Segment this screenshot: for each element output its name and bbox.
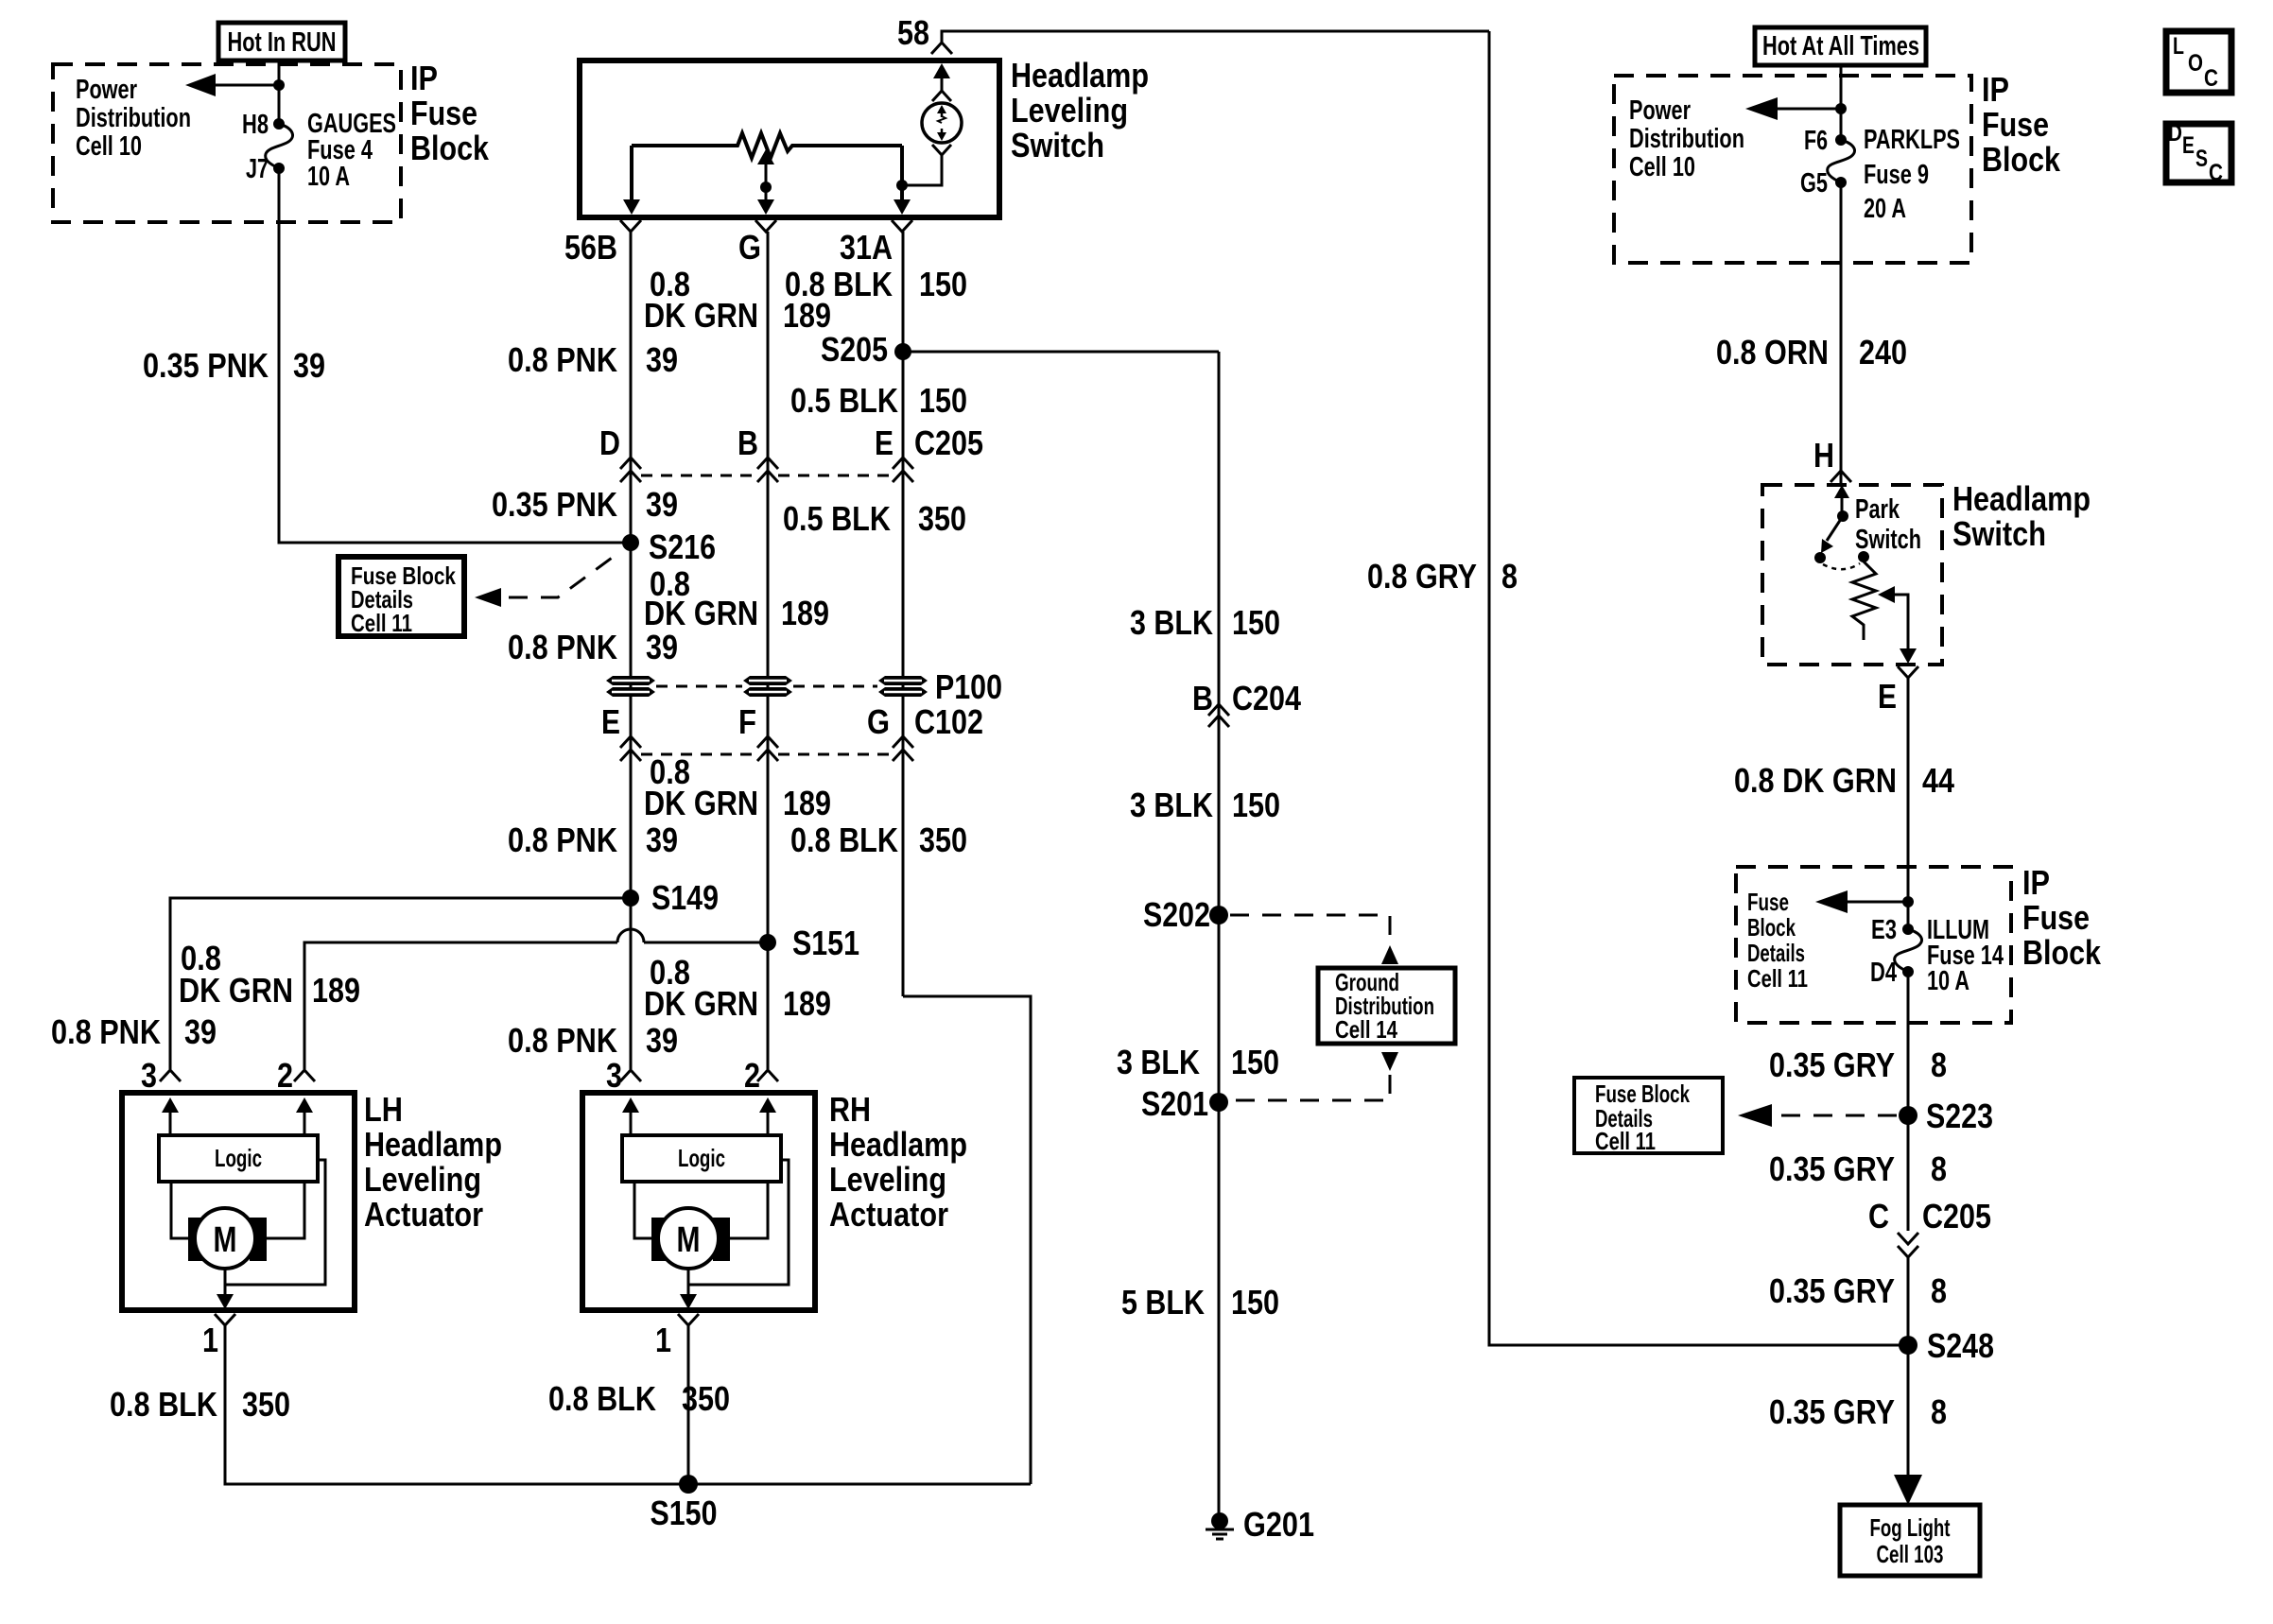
svg-text:8: 8 xyxy=(1501,557,1518,596)
svg-text:Headlamp: Headlamp xyxy=(1952,479,2091,518)
logic box RH xyxy=(622,1135,781,1182)
svg-text:Distribution: Distribution xyxy=(1629,124,1744,154)
wire label 0.5 BLK 150 xyxy=(790,381,967,420)
label ILLUM Fuse 14 10 A xyxy=(1927,915,2004,996)
connector C102 chevrons and dashed line xyxy=(620,736,913,761)
pot left lead arrow to 56B xyxy=(623,146,640,215)
svg-text:20 A: 20 A xyxy=(1864,194,1906,224)
svg-text:150: 150 xyxy=(919,265,967,303)
wire column G/B/F DK GRN xyxy=(767,232,770,1069)
svg-text:S149: S149 xyxy=(651,878,719,917)
svg-text:Cell 11: Cell 11 xyxy=(1747,964,1808,993)
svg-text:3 BLK: 3 BLK xyxy=(1130,786,1213,824)
LH pin2 arrow inside xyxy=(296,1097,313,1135)
svg-text:B: B xyxy=(1192,679,1213,717)
connector C204 chevrons xyxy=(1208,704,1229,727)
svg-text:Headlamp: Headlamp xyxy=(1011,56,1149,95)
svg-text:Block: Block xyxy=(1747,913,1796,942)
svg-text:240: 240 xyxy=(1859,333,1907,371)
svg-text:Leveling: Leveling xyxy=(829,1160,946,1199)
svg-text:S150: S150 xyxy=(651,1494,718,1532)
svg-text:F: F xyxy=(738,702,756,741)
svg-text:1: 1 xyxy=(655,1321,671,1359)
wire arrow to Power Distribution (right) xyxy=(1745,97,1841,120)
reference box Fuse Block Details Cell 11 (left) xyxy=(338,557,464,637)
node at pot right lead xyxy=(896,180,908,191)
svg-text:LH: LH xyxy=(364,1090,403,1129)
svg-text:2: 2 xyxy=(744,1056,760,1095)
arrow into fog light box xyxy=(1894,1475,1922,1505)
svg-text:DK GRN: DK GRN xyxy=(644,594,758,632)
svg-text:E: E xyxy=(2182,132,2195,159)
svg-text:Logic: Logic xyxy=(678,1144,725,1172)
wire label 3 BLK 150 (above C204) xyxy=(1130,603,1280,642)
label IP Fuse Block (right top) xyxy=(1982,70,2061,179)
svg-text:Fuse: Fuse xyxy=(2022,898,2090,937)
reference box Fuse Block Details Cell 11 (right) xyxy=(1574,1078,1723,1155)
svg-text:39: 39 xyxy=(646,1021,678,1060)
label Park Switch xyxy=(1855,494,1921,555)
component box RH Headlamp Leveling Actuator xyxy=(582,1093,815,1310)
connector C102 labels E F G xyxy=(601,702,983,741)
wire 0.8 GRY 8 from 58 down to S248 xyxy=(1489,31,1908,1345)
wire label 0.35 PNK 39 (left feed) xyxy=(143,346,325,385)
wire E down to ILLUM fuse xyxy=(1907,678,1910,929)
splice S216 xyxy=(622,527,716,566)
svg-text:0.5 BLK: 0.5 BLK xyxy=(783,499,891,538)
svg-text:Power: Power xyxy=(1629,95,1691,126)
svg-text:0.8 BLK: 0.8 BLK xyxy=(110,1385,217,1424)
wire label 0.8 PNK 39 (RH pin3) xyxy=(508,1021,678,1060)
connector chevron H xyxy=(1831,471,1851,482)
svg-text:E: E xyxy=(875,423,894,462)
tab box LOC xyxy=(2166,31,2231,93)
label IP Fuse Block (right lower) xyxy=(2022,863,2102,972)
wire label 0.5 BLK 350 xyxy=(783,499,966,538)
svg-text:E: E xyxy=(601,702,620,741)
RH logic tap to pin1 xyxy=(688,1160,789,1285)
svg-text:C: C xyxy=(2204,65,2218,92)
label box Hot At All Times xyxy=(1755,27,1926,65)
svg-text:0.5 BLK: 0.5 BLK xyxy=(790,381,898,420)
svg-text:0.8 PNK: 0.8 PNK xyxy=(508,1021,617,1060)
svg-text:8: 8 xyxy=(1931,1045,1947,1084)
svg-text:Cell 10: Cell 10 xyxy=(1629,152,1695,182)
svg-text:8: 8 xyxy=(1931,1392,1947,1431)
connector chevron LH pin 3 xyxy=(160,1070,181,1081)
dashed reference arrow S223 to fuse block details xyxy=(1738,1104,1897,1127)
svg-text:H8: H8 xyxy=(242,110,269,140)
svg-text:S201: S201 xyxy=(1141,1084,1208,1123)
svg-text:C205: C205 xyxy=(914,423,983,462)
wire label 0.35 PNK 39 (above S216) xyxy=(492,485,678,524)
label RH Headlamp Leveling Actuator xyxy=(829,1090,967,1234)
svg-text:C102: C102 xyxy=(914,702,983,741)
svg-text:0.8 BLK: 0.8 BLK xyxy=(785,265,893,303)
svg-text:56B: 56B xyxy=(564,228,617,267)
connector C205 label C xyxy=(1868,1197,1991,1235)
wire S149 to LH pin 3 xyxy=(170,898,631,1069)
wire label 0.35 GRY 8 (above S223) xyxy=(1769,1045,1947,1084)
wire below C205 to S248 xyxy=(1907,1257,1910,1494)
svg-text:S216: S216 xyxy=(649,527,716,566)
svg-text:H: H xyxy=(1813,436,1834,475)
svg-text:G201: G201 xyxy=(1243,1505,1314,1544)
splice S149 xyxy=(622,878,719,917)
label Headlamp Leveling Switch xyxy=(1011,56,1149,164)
potentiometer resistor in switch xyxy=(632,133,902,158)
svg-text:Switch: Switch xyxy=(1952,514,2046,553)
svg-text:IP: IP xyxy=(410,59,438,97)
motor M LH xyxy=(188,1208,267,1269)
wire label 3 BLK 150 (above S201) xyxy=(1117,1043,1279,1081)
svg-text:189: 189 xyxy=(781,594,829,632)
wire label 0.8 DK GRN 44 xyxy=(1734,761,1954,800)
svg-text:Details: Details xyxy=(1747,939,1805,967)
svg-text:Cell 14: Cell 14 xyxy=(1335,1015,1397,1044)
svg-text:Fuse: Fuse xyxy=(410,94,477,132)
fuse PARKLPS Fuse 9 20A (F6/G5) xyxy=(1828,134,1855,188)
svg-text:Switch: Switch xyxy=(1011,126,1104,164)
wire label 0.8 PNK 39 (col1 top) xyxy=(508,340,678,379)
label GAUGES Fuse 4 10 A xyxy=(307,109,396,192)
svg-text:S248: S248 xyxy=(1927,1326,1994,1365)
RH motor to pin1 arrow xyxy=(680,1270,697,1309)
node junction right feed xyxy=(1835,103,1847,114)
wire ground column from S205 to G201 xyxy=(1218,352,1221,1514)
svg-text:Power: Power xyxy=(76,75,137,105)
svg-text:3 BLK: 3 BLK xyxy=(1130,603,1213,642)
connector chevron E (headlamp switch) xyxy=(1898,666,1918,678)
tab box DESC xyxy=(2166,120,2231,186)
dashed reference S202 to ground distribution xyxy=(1230,915,1398,964)
svg-text:B: B xyxy=(737,423,758,462)
svg-text:39: 39 xyxy=(293,346,325,385)
svg-text:Headlamp: Headlamp xyxy=(829,1125,967,1164)
svg-text:Logic: Logic xyxy=(215,1144,262,1172)
fuse ILLUM Fuse 14 10A (E3/D4) xyxy=(1895,924,1922,977)
svg-text:150: 150 xyxy=(919,381,967,420)
svg-text:350: 350 xyxy=(918,499,966,538)
wire from Hot In RUN down to fuse H8 xyxy=(278,60,281,124)
connector chevron RH pin 1 xyxy=(678,1314,699,1325)
svg-text:39: 39 xyxy=(184,1012,217,1051)
wire arrow to Power Distribution xyxy=(185,74,279,96)
svg-text:189: 189 xyxy=(783,784,831,822)
svg-text:O: O xyxy=(2188,50,2203,77)
svg-text:C: C xyxy=(2209,160,2223,186)
wire arrow to fuse block details xyxy=(1815,890,1908,913)
svg-text:Headlamp: Headlamp xyxy=(364,1125,502,1164)
connector chevron LH pin 2 xyxy=(294,1070,315,1081)
svg-text:F6: F6 xyxy=(1804,126,1828,156)
label Power Distribution Cell 10 (left) xyxy=(76,75,191,162)
svg-text:0.35 PNK: 0.35 PNK xyxy=(143,346,269,385)
dashed reference ground distribution to S201 xyxy=(1230,1052,1398,1100)
IP fuse block dashed box (right top) xyxy=(1614,76,1971,263)
svg-text:IP: IP xyxy=(1982,70,2009,109)
wire label 0.8 BLK 350 (col3 lower) xyxy=(790,821,967,859)
logic box LH xyxy=(159,1135,318,1182)
svg-text:3 BLK: 3 BLK xyxy=(1117,1043,1200,1081)
svg-text:Park: Park xyxy=(1855,494,1900,525)
svg-text:Leveling: Leveling xyxy=(364,1160,481,1199)
splice S201 xyxy=(1141,1084,1228,1123)
svg-text:Fog Light: Fog Light xyxy=(1870,1513,1951,1542)
svg-text:0.35 GRY: 0.35 GRY xyxy=(1769,1271,1895,1310)
wire label 0.35 GRY 8 (below C205) xyxy=(1769,1271,1947,1310)
svg-text:DK GRN: DK GRN xyxy=(179,971,293,1010)
wire label 0.8 BLK 350 (RH) xyxy=(548,1379,730,1418)
wire label 0.8 DK GRN 189 (RH pin2) xyxy=(644,953,831,1023)
svg-text:39: 39 xyxy=(646,628,678,666)
wire column 31A/E/G BLK xyxy=(902,232,905,996)
svg-text:Cell 11: Cell 11 xyxy=(351,609,412,637)
chevron below dimmer circle xyxy=(932,145,951,155)
LH pin3 arrow inside xyxy=(162,1097,179,1135)
wire label 0.8 BLK 350 (LH) xyxy=(110,1385,290,1424)
wire label 0.8 ORN 240 xyxy=(1716,333,1907,371)
svg-text:0.35 GRY: 0.35 GRY xyxy=(1769,1392,1895,1431)
park switch inside xyxy=(1814,485,1869,569)
svg-text:Hot In RUN: Hot In RUN xyxy=(228,27,337,58)
svg-text:1: 1 xyxy=(202,1321,218,1359)
wire column 56B/D/E PNK xyxy=(630,232,633,1069)
reference box Ground Distribution Cell 14 xyxy=(1318,968,1455,1044)
wire label 0.8 DK GRN 189 (col2 lower) xyxy=(644,752,831,822)
svg-text:0.35 GRY: 0.35 GRY xyxy=(1769,1045,1895,1084)
svg-text:3: 3 xyxy=(606,1056,622,1095)
wire RH pin1 down to S150 xyxy=(687,1325,690,1484)
svg-text:189: 189 xyxy=(783,984,831,1023)
svg-text:Block: Block xyxy=(1982,140,2061,179)
svg-text:2: 2 xyxy=(277,1056,293,1095)
connector chevron G xyxy=(755,220,776,232)
svg-text:Actuator: Actuator xyxy=(364,1195,483,1234)
svg-text:Leveling: Leveling xyxy=(1011,91,1128,130)
connector chevron 58 xyxy=(931,43,952,54)
svg-text:0.35 GRY: 0.35 GRY xyxy=(1769,1149,1895,1188)
wire G5 down to H xyxy=(1840,182,1843,484)
node junction on feed wire xyxy=(273,79,285,91)
RH pin3 arrow inside xyxy=(622,1097,639,1135)
IP fuse block dashed box (right lower) xyxy=(1736,867,2011,1023)
svg-text:31A: 31A xyxy=(840,228,893,267)
svg-text:150: 150 xyxy=(1231,1283,1279,1322)
wire from dimmer to potentiometer right lead xyxy=(902,155,942,185)
svg-text:Block: Block xyxy=(410,129,490,167)
svg-text:IP: IP xyxy=(2022,863,2050,902)
pot wiper arrow and lead to G xyxy=(757,149,774,215)
svg-text:Hot At All Times: Hot At All Times xyxy=(1762,31,1919,61)
svg-text:M: M xyxy=(214,1220,237,1260)
svg-text:10 A: 10 A xyxy=(307,162,350,192)
splice S223 xyxy=(1899,1097,1993,1135)
svg-text:189: 189 xyxy=(312,971,360,1010)
connector C205 chevrons (right) xyxy=(1898,1233,1918,1257)
svg-text:D: D xyxy=(2168,120,2182,147)
label Fuse Block Details Cell 11 (inside lower box) xyxy=(1747,888,1808,993)
LH motor to pin1 arrow xyxy=(217,1270,234,1309)
label LH Headlamp Leveling Actuator xyxy=(364,1090,502,1234)
RH logic to motor right wire xyxy=(730,1182,768,1238)
label IP Fuse Block (left) xyxy=(410,59,490,167)
wire D4 down to S223 and beyond xyxy=(1907,972,1910,1231)
wire S205 to ground column xyxy=(903,351,1219,354)
svg-text:Actuator: Actuator xyxy=(829,1195,948,1234)
svg-text:Fuse: Fuse xyxy=(1747,888,1789,916)
wire label 0.8 DK GRN 189 (col2 top) xyxy=(644,265,831,335)
splice S151 xyxy=(759,924,859,962)
headlamp switch dashed box xyxy=(1762,485,1942,665)
wire 58 to gry column xyxy=(942,31,1489,43)
svg-text:5 BLK: 5 BLK xyxy=(1121,1283,1205,1322)
wire label 0.8 DK GRN 189 (LH pin2) xyxy=(179,939,360,1010)
svg-text:P100: P100 xyxy=(935,667,1002,706)
svg-text:0.8 PNK: 0.8 PNK xyxy=(508,821,617,859)
svg-text:8: 8 xyxy=(1931,1149,1947,1188)
wire label 0.8 PNK 39 (col1 lower) xyxy=(508,821,678,859)
wire label 0.8 PNK 39 (col1 below S216) xyxy=(508,628,678,666)
svg-text:C: C xyxy=(1868,1197,1889,1235)
pot right lead arrow to 31A xyxy=(894,146,911,215)
label Power Distribution Cell 10 (right) xyxy=(1629,95,1744,182)
IP fuse block dashed box (left) xyxy=(53,64,401,222)
ground G201 xyxy=(1206,1505,1314,1544)
wire S151 to LH pin 2 with hop over col1 xyxy=(304,929,768,1069)
svg-text:D: D xyxy=(599,423,620,462)
svg-text:PARKLPS: PARKLPS xyxy=(1864,125,1960,155)
svg-text:0.35 PNK: 0.35 PNK xyxy=(492,485,617,524)
wire col3 down to S150 riser xyxy=(903,996,1031,1484)
wire from J7 down and right to S216 xyxy=(279,168,631,543)
svg-text:39: 39 xyxy=(646,340,678,379)
wire label 0.8 BLK 150 (col3 top) xyxy=(785,265,967,303)
wire label 5 BLK 150 xyxy=(1121,1283,1279,1322)
svg-text:Block: Block xyxy=(2022,933,2102,972)
svg-text:S151: S151 xyxy=(792,924,859,962)
svg-text:E: E xyxy=(1878,677,1897,716)
svg-text:DK GRN: DK GRN xyxy=(644,784,758,822)
splice S202 xyxy=(1143,895,1228,934)
svg-text:Cell 103: Cell 103 xyxy=(1877,1540,1944,1568)
svg-text:0.8 BLK: 0.8 BLK xyxy=(548,1379,656,1418)
svg-text:L: L xyxy=(2173,33,2184,60)
svg-text:S202: S202 xyxy=(1143,895,1210,934)
wire label 0.35 GRY 8 (below S248) xyxy=(1769,1392,1947,1431)
svg-text:C205: C205 xyxy=(1922,1197,1991,1235)
svg-text:0.8 PNK: 0.8 PNK xyxy=(508,628,617,666)
dimmer rheostat inside headlamp switch xyxy=(1852,557,1917,664)
wire label 0.8 PNK 39 (LH pin3) xyxy=(51,1012,217,1051)
connector chevron RH pin 2 xyxy=(757,1070,778,1081)
splice S150 xyxy=(651,1475,718,1532)
svg-text:Fuse 9: Fuse 9 xyxy=(1864,160,1929,190)
label box Hot In RUN xyxy=(218,23,345,60)
svg-text:E3: E3 xyxy=(1871,915,1897,945)
svg-text:G: G xyxy=(867,702,890,741)
wire label 3 BLK 150 (below C204) xyxy=(1130,786,1280,824)
svg-text:Fuse: Fuse xyxy=(1982,105,2049,144)
svg-text:DK GRN: DK GRN xyxy=(644,984,758,1023)
svg-text:0.8 PNK: 0.8 PNK xyxy=(51,1012,161,1051)
connector C204 label B xyxy=(1192,679,1301,717)
svg-text:39: 39 xyxy=(646,821,678,859)
motor M RH xyxy=(651,1208,730,1269)
node junction above ILLUM fuse xyxy=(1902,896,1914,907)
svg-text:S223: S223 xyxy=(1926,1097,1993,1135)
connector C205 chevrons and dashed line xyxy=(620,458,913,482)
svg-text:44: 44 xyxy=(1922,761,1954,800)
connector chevron RH pin 3 xyxy=(620,1070,641,1081)
svg-text:39: 39 xyxy=(646,485,678,524)
dashed reference arrow from S216 to Fuse Block Details xyxy=(475,553,618,607)
svg-text:J7: J7 xyxy=(246,154,269,184)
component box LH Headlamp Leveling Actuator xyxy=(122,1093,355,1310)
svg-text:58: 58 xyxy=(897,13,929,52)
wire label 0.8 DK GRN 189 (col2 mid) xyxy=(644,564,829,632)
component box Headlamp Leveling Switch xyxy=(580,60,999,217)
svg-text:Switch: Switch xyxy=(1855,525,1921,555)
chevron above dimmer circle xyxy=(932,91,951,101)
svg-text:D4: D4 xyxy=(1870,958,1897,988)
svg-text:Cell 10: Cell 10 xyxy=(76,131,142,162)
splice S205 xyxy=(821,330,911,369)
LH logic to motor wires xyxy=(171,1182,188,1238)
wire from Hot At All Times to F6 xyxy=(1840,65,1843,140)
connector chevron LH pin 1 xyxy=(215,1314,235,1325)
svg-text:0.8 GRY: 0.8 GRY xyxy=(1367,557,1477,596)
arrow up inside switch to top wall xyxy=(933,63,950,91)
RH logic to motor wires xyxy=(634,1182,651,1238)
LH logic to motor right wire xyxy=(267,1182,304,1238)
wire label 0.35 GRY 8 (below S223) xyxy=(1769,1149,1947,1188)
svg-text:G5: G5 xyxy=(1800,168,1828,199)
wire LH pin1 down to S150 run xyxy=(225,1325,1031,1484)
svg-text:S: S xyxy=(2195,146,2208,172)
svg-text:8: 8 xyxy=(1931,1271,1947,1310)
svg-text:350: 350 xyxy=(919,821,967,859)
svg-text:S205: S205 xyxy=(821,330,888,369)
svg-text:150: 150 xyxy=(1231,1043,1279,1081)
label PARKLPS Fuse 9 20 A xyxy=(1864,125,1960,224)
svg-text:10 A: 10 A xyxy=(1927,966,1969,996)
svg-text:0.8 BLK: 0.8 BLK xyxy=(790,821,898,859)
RH pin2 arrow inside xyxy=(759,1097,776,1135)
svg-text:350: 350 xyxy=(682,1379,730,1418)
wire label 0.8 GRY 8 xyxy=(1367,557,1518,596)
svg-text:Distribution: Distribution xyxy=(76,103,191,133)
svg-text:150: 150 xyxy=(1232,786,1280,824)
svg-text:0.8 PNK: 0.8 PNK xyxy=(508,340,617,379)
LH logic tap to pin1 xyxy=(225,1160,325,1285)
connector chevron 31A xyxy=(892,220,912,232)
connector C205 labels D B E xyxy=(599,423,983,462)
svg-text:0.8 DK GRN: 0.8 DK GRN xyxy=(1734,761,1897,800)
reference box Fog Light Cell 103 xyxy=(1840,1505,1980,1576)
connector P100 grommets and dashed line xyxy=(606,676,928,697)
dimmer symbol circle xyxy=(922,103,962,143)
label Headlamp Switch xyxy=(1952,479,2091,553)
connector chevron 56B xyxy=(620,220,641,232)
svg-text:350: 350 xyxy=(242,1385,290,1424)
svg-text:G: G xyxy=(738,228,761,267)
svg-text:RH: RH xyxy=(829,1090,871,1129)
svg-text:0.8 ORN: 0.8 ORN xyxy=(1716,333,1829,371)
fuse GAUGES Fuse 4 10A (H8/J7) xyxy=(266,118,293,174)
svg-text:DK GRN: DK GRN xyxy=(644,296,758,335)
svg-text:C204: C204 xyxy=(1232,679,1301,717)
